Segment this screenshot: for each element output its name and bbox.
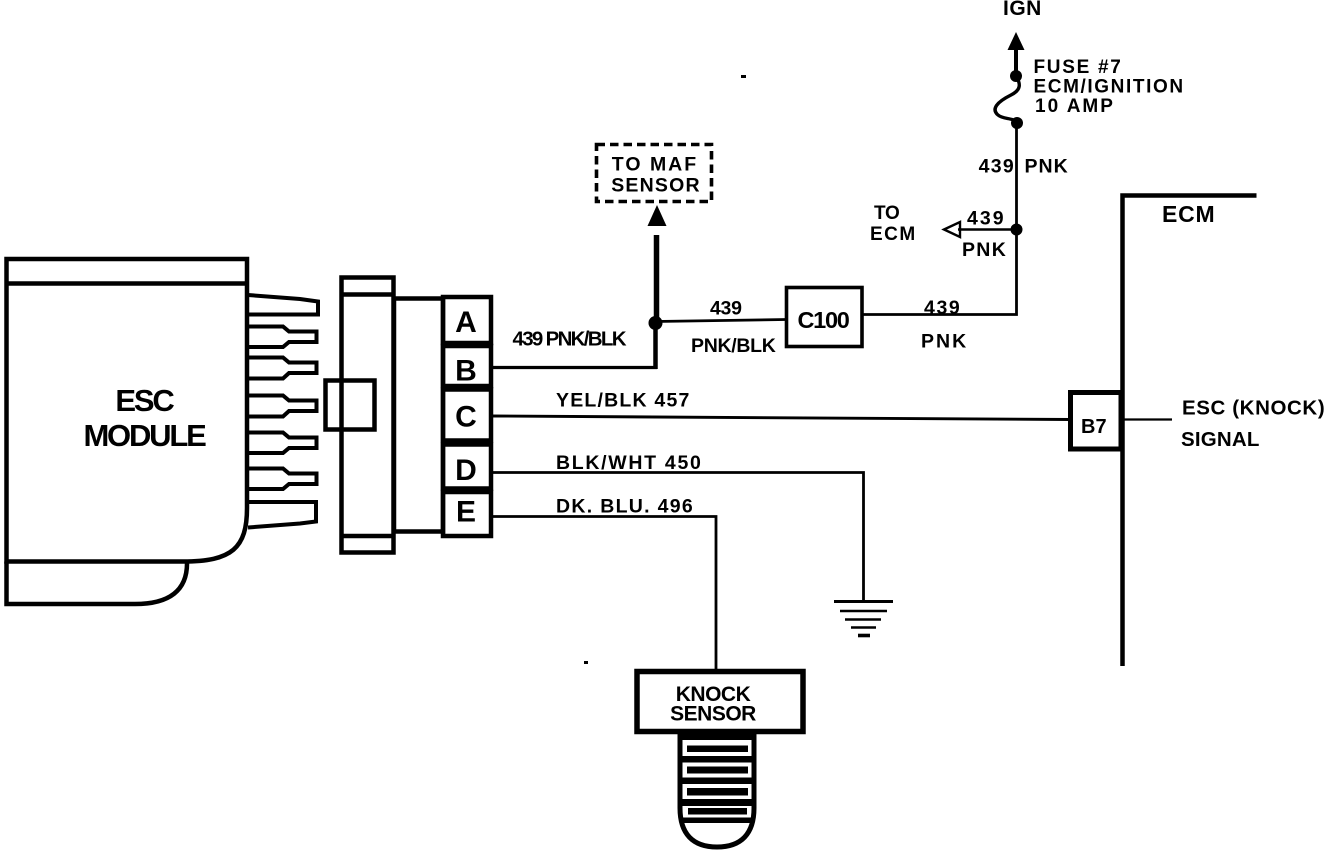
svg-text:TO MAF: TO MAF — [612, 154, 698, 176]
svg-text:ESC: ESC — [115, 383, 174, 418]
connector C100 — [787, 288, 863, 347]
pin tooth 7 — [248, 502, 316, 528]
pin tooth 4 — [248, 396, 317, 417]
pin E — [443, 492, 491, 536]
svg-text:YEL/BLK 457: YEL/BLK 457 — [556, 390, 691, 412]
svg-text:10 AMP: 10 AMP — [1035, 96, 1115, 117]
knock sensor thread bar 2 — [687, 767, 748, 774]
wire C100 to riser — [862, 124, 1017, 315]
svg-text:PNK: PNK — [962, 239, 1007, 261]
pin A — [443, 297, 491, 343]
svg-text:ECM: ECM — [1162, 201, 1216, 227]
svg-text:D: D — [455, 454, 477, 487]
connector bottom divider — [342, 534, 394, 539]
connector latch — [326, 381, 375, 430]
fuse F7 — [1011, 117, 1023, 129]
pin housing — [394, 299, 443, 532]
wire pin E to knock sensor (DK. BLU. 496) — [491, 517, 716, 670]
knock sensor thread band top — [681, 733, 753, 740]
knock sensor thread band 3 — [681, 778, 753, 785]
pin tooth 3 — [248, 358, 317, 379]
pin tooth 5 — [248, 433, 317, 454]
ECM boundary — [1123, 196, 1257, 667]
knock sensor head — [637, 672, 803, 732]
svg-text:439: 439 — [979, 156, 1015, 178]
knock sensor thread bar 3 — [687, 788, 748, 796]
knock sensor thread band 2 — [681, 756, 753, 763]
arrow to IGN — [1014, 48, 1018, 76]
wire pin D to ground (BLK/WHT 450) — [491, 473, 864, 601]
terminal B7 — [1071, 393, 1122, 450]
svg-text:B7: B7 — [1081, 416, 1107, 438]
svg-text:SENSOR: SENSOR — [611, 175, 701, 197]
pin tooth 1 — [248, 295, 318, 315]
pin tooth 6 — [248, 469, 317, 490]
svg-text:TO: TO — [874, 203, 899, 224]
wire pin C to B7 (YEL/BLK 457) — [491, 416, 1070, 420]
arrow to MAF sensor — [654, 235, 660, 322]
svg-text:IGN: IGN — [1003, 0, 1042, 20]
svg-text:PNK: PNK — [921, 331, 968, 353]
ESC module body — [7, 259, 248, 562]
connector body — [342, 278, 394, 553]
node junction 439 PNK/BLK — [649, 316, 663, 330]
svg-text:PNK/BLK: PNK/BLK — [691, 335, 776, 357]
svg-text:C: C — [455, 401, 477, 434]
svg-text:SENSOR: SENSOR — [670, 703, 756, 726]
svg-text:439: 439 — [924, 297, 961, 319]
svg-text:A: A — [455, 306, 477, 339]
svg-text:ECM/IGNITION: ECM/IGNITION — [1034, 77, 1185, 98]
svg-text:ECM: ECM — [870, 224, 917, 245]
pin C — [443, 390, 491, 441]
wire junction to C100 — [656, 320, 787, 322]
pin B — [443, 346, 491, 386]
ESC module header line — [5, 281, 248, 286]
pin D — [443, 445, 491, 489]
svg-text:439: 439 — [967, 208, 1006, 230]
knock sensor thread band 4 — [681, 799, 753, 806]
svg-text:C100: C100 — [798, 307, 850, 333]
ESC module bottom tab — [7, 562, 188, 605]
wire pin B to junction — [491, 366, 657, 369]
svg-text:MODULE: MODULE — [83, 418, 206, 453]
svg-text:439 PNK/BLK: 439 PNK/BLK — [513, 328, 627, 351]
svg-text:PNK: PNK — [1025, 156, 1069, 178]
knock sensor body — [680, 734, 754, 847]
knock sensor thread band 5 — [683, 818, 751, 824]
svg-text:DK. BLU. 496: DK. BLU. 496 — [556, 496, 694, 518]
svg-text:439: 439 — [710, 298, 742, 320]
svg-text:ESC (KNOCK): ESC (KNOCK) — [1182, 397, 1325, 420]
svg-text:FUSE #7: FUSE #7 — [1034, 57, 1123, 78]
TO MAF SENSOR box — [597, 145, 712, 202]
svg-text:B: B — [455, 355, 477, 388]
arrow TO ECM — [958, 228, 1017, 231]
svg-text:BLK/WHT 450: BLK/WHT 450 — [556, 452, 703, 474]
svg-text:E: E — [456, 496, 476, 529]
node 439 PNK junction — [1011, 224, 1023, 236]
knock sensor thread bar 1 — [687, 746, 748, 753]
ground — [834, 600, 893, 603]
wire B7 to signal label — [1124, 418, 1173, 420]
speck top center — [741, 75, 746, 78]
connector top divider — [342, 292, 394, 297]
svg-text:SIGNAL: SIGNAL — [1181, 428, 1260, 451]
speck near wire — [584, 661, 588, 664]
knock sensor thread bar 4 — [688, 808, 747, 815]
pin tooth 2 — [248, 327, 317, 348]
